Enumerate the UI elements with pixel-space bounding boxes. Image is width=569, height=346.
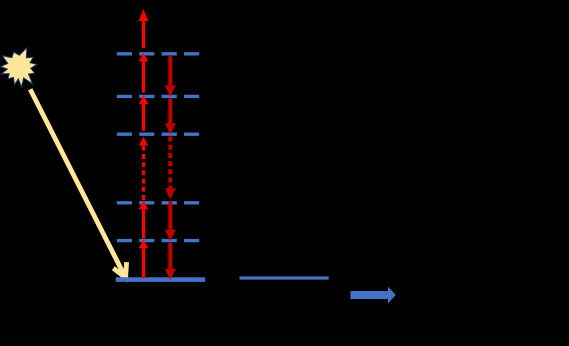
up arrow: level4 to level5 [139, 53, 148, 93]
down arrow (dashed continuation): level3 to level2 [165, 137, 176, 200]
up arrow: ground to level1 [139, 240, 148, 279]
excited level 5 (dashed) [117, 52, 200, 55]
excited level 3 (dashed) [117, 132, 200, 135]
second ground level line [240, 276, 329, 279]
excited level 2 (dashed) [117, 201, 200, 204]
blue block arrow (rightward) [351, 287, 396, 304]
ground state level [116, 277, 206, 282]
up arrow: level3 to level4 [139, 95, 148, 131]
incident light ray (shaft) [30, 89, 125, 277]
up arrow (dashed continuation): level2 to level3 [139, 137, 148, 200]
down arrow: level4 to level3 [165, 99, 176, 135]
down arrow: level2 to level1 [165, 202, 176, 242]
light source star (explosion) [1, 48, 37, 87]
excited level 1 (dashed) [117, 239, 200, 242]
excited level 4 (dashed) [117, 95, 200, 98]
down arrow: level5 to level4 [165, 56, 176, 97]
up arrow: level1 to level2 [139, 200, 148, 238]
down arrow: level1 to ground [165, 243, 176, 280]
up arrow: ionization from top level [139, 9, 148, 48]
incident light ray open arrowhead [113, 262, 126, 278]
